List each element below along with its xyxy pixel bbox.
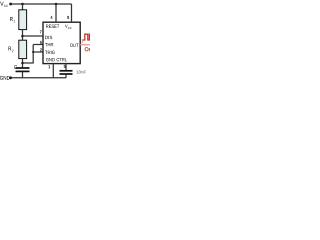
label 10nF (76, 70, 86, 73)
junction TRIG link (32, 51, 34, 53)
label R2 (8, 47, 13, 52)
pin number 4 (50, 16, 52, 19)
label TRIG (45, 51, 55, 54)
pin number 1 (48, 65, 50, 68)
wire CTRL pin 5 (65, 64, 67, 71)
label CTRL (57, 58, 67, 61)
label Vcc pin (65, 25, 72, 29)
wire C to ground rail (22, 72, 24, 78)
wire node horizontal link (23, 62, 34, 64)
label Vcc (0, 2, 8, 7)
label OUT (70, 44, 78, 47)
wire TRIG to pin 2 (33, 51, 43, 53)
wire RESET pin 4 (55, 4, 57, 22)
node Vcc terminal (9, 3, 12, 6)
wire OUT pin 3 output net (80, 44, 90, 46)
pin number 6 (40, 41, 42, 44)
wire R1 to R2 (22, 30, 24, 41)
capacitor C bottom plate (16, 70, 30, 72)
wire ground rail (11, 77, 67, 79)
pin number 3 (81, 40, 83, 43)
wire link vertical (32, 45, 34, 64)
label C (14, 65, 17, 69)
label GND pin (46, 58, 55, 61)
capacitor C2 10nF top plate (60, 70, 73, 72)
label RESET (46, 25, 59, 28)
node GND terminal (9, 76, 12, 79)
junction THR/TRIG node (21, 62, 24, 65)
resistor R2 (19, 40, 27, 58)
wire THR to pin 6 (33, 44, 43, 46)
wire Vcc pin 8 (71, 4, 73, 22)
junction R1 top (21, 3, 24, 6)
junction RESET pin 4 rail (55, 3, 58, 6)
pin number 2 (40, 48, 42, 51)
wire GND pin 1 (52, 64, 54, 78)
pin number 7 (40, 30, 42, 33)
label GND (0, 76, 10, 80)
junction DIS node (21, 35, 24, 38)
resistor R1 (19, 10, 27, 30)
pin number 8 (67, 16, 69, 19)
label DIS (45, 36, 52, 39)
wire R2 to capacitor C (22, 59, 24, 68)
wire Vcc power rail (11, 3, 72, 5)
label Out (85, 47, 95, 51)
capacitor C top plate (16, 67, 30, 69)
capacitor C2 10nF bottom plate (60, 73, 73, 75)
output waveform icon (83, 34, 91, 40)
IC U1 555 timer body (43, 22, 80, 63)
wire C2 to ground rail (65, 75, 67, 78)
pin number 5 (64, 65, 66, 68)
label THR (45, 43, 53, 46)
wire Vcc rail to R1 (22, 4, 24, 10)
label R1 (10, 17, 15, 22)
wire DIS node to pin 7 (23, 35, 44, 37)
